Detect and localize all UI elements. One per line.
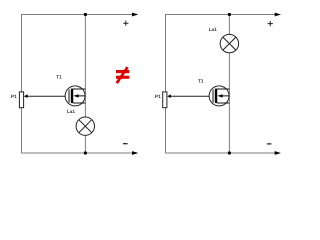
svg-text:La1: La1 xyxy=(67,109,75,114)
svg-text:P1: P1 xyxy=(11,94,17,99)
svg-text:T1: T1 xyxy=(56,75,62,80)
svg-text:La1: La1 xyxy=(209,27,217,32)
svg-text:T1: T1 xyxy=(198,79,204,84)
svg-text:P1: P1 xyxy=(155,94,161,99)
